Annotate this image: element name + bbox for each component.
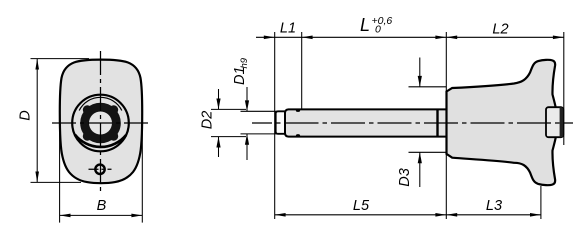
shank collar joint line xyxy=(436,109,438,138)
L2 right arrow xyxy=(553,36,564,40)
mushroom grip handle side view xyxy=(447,60,558,185)
grip front view outline xyxy=(60,60,142,184)
svg-text:L5: L5 xyxy=(353,198,370,214)
lanyard hole small circle xyxy=(95,165,104,174)
grip front upper recess arc xyxy=(79,97,122,110)
extension line pin tip (ext1) xyxy=(274,32,276,219)
dimension B line xyxy=(60,214,143,216)
hub ring (circle with four diagonal bumps) xyxy=(80,103,121,144)
D3 extension lines xyxy=(409,86,447,88)
extension line handle face (ext3) xyxy=(445,32,447,219)
pin tip xyxy=(276,111,285,134)
bottom dimension line xyxy=(275,214,541,216)
D3 dimension lines and arrows xyxy=(419,58,421,87)
front view vertical centerline xyxy=(100,51,102,193)
L1 left arrow (outside) xyxy=(264,36,275,40)
pin shank xyxy=(285,109,447,136)
svg-text:L3: L3 xyxy=(486,198,502,214)
L2 left arrow xyxy=(446,36,457,40)
D2 dimension lines and arrows xyxy=(218,89,220,109)
locking ball top xyxy=(296,109,300,112)
dimension B extension lines xyxy=(59,128,61,223)
L dim right arrow xyxy=(435,36,446,40)
extension line boss right (ext4) xyxy=(563,32,565,145)
D1 extension lines (tip diameter) xyxy=(241,110,281,112)
grip front lower recess arc xyxy=(75,135,126,147)
svg-text:D3: D3 xyxy=(397,168,413,187)
L3 left arrow xyxy=(446,213,457,217)
pin centerline xyxy=(252,122,573,124)
lanyard hole horizontal centerline xyxy=(89,168,112,170)
front view horizontal centerline xyxy=(52,122,150,124)
D2 extension lines (shank diameter) xyxy=(211,108,246,110)
svg-text:D: D xyxy=(18,110,34,120)
svg-text:D2: D2 xyxy=(200,111,216,130)
svg-text:h9: h9 xyxy=(239,57,250,68)
svg-text:L2: L2 xyxy=(492,22,508,38)
grip front outer recess circle xyxy=(72,95,129,152)
L5 right arrow xyxy=(435,213,446,217)
pin head boss xyxy=(546,107,563,137)
D1 dimension lines and arrows xyxy=(246,87,248,111)
L dim left arrow xyxy=(302,36,313,40)
svg-text:0: 0 xyxy=(375,24,381,36)
hub ring inner hole xyxy=(89,112,112,135)
top dimension line xyxy=(256,36,564,38)
boss shaded right edge xyxy=(560,107,564,137)
dimension D line xyxy=(36,59,38,183)
locking ball bottom xyxy=(296,134,300,137)
L5 left arrow xyxy=(275,213,286,217)
D1 h9 label xyxy=(232,57,250,85)
svg-text:B: B xyxy=(97,198,107,214)
L3 right arrow xyxy=(530,213,541,217)
svg-text:L1: L1 xyxy=(280,21,296,37)
extension line lobe back (ext5) xyxy=(540,186,542,219)
dimension D extension lines xyxy=(31,58,90,60)
svg-text:L: L xyxy=(360,15,370,35)
extension line ball position (ext2) xyxy=(301,32,303,109)
